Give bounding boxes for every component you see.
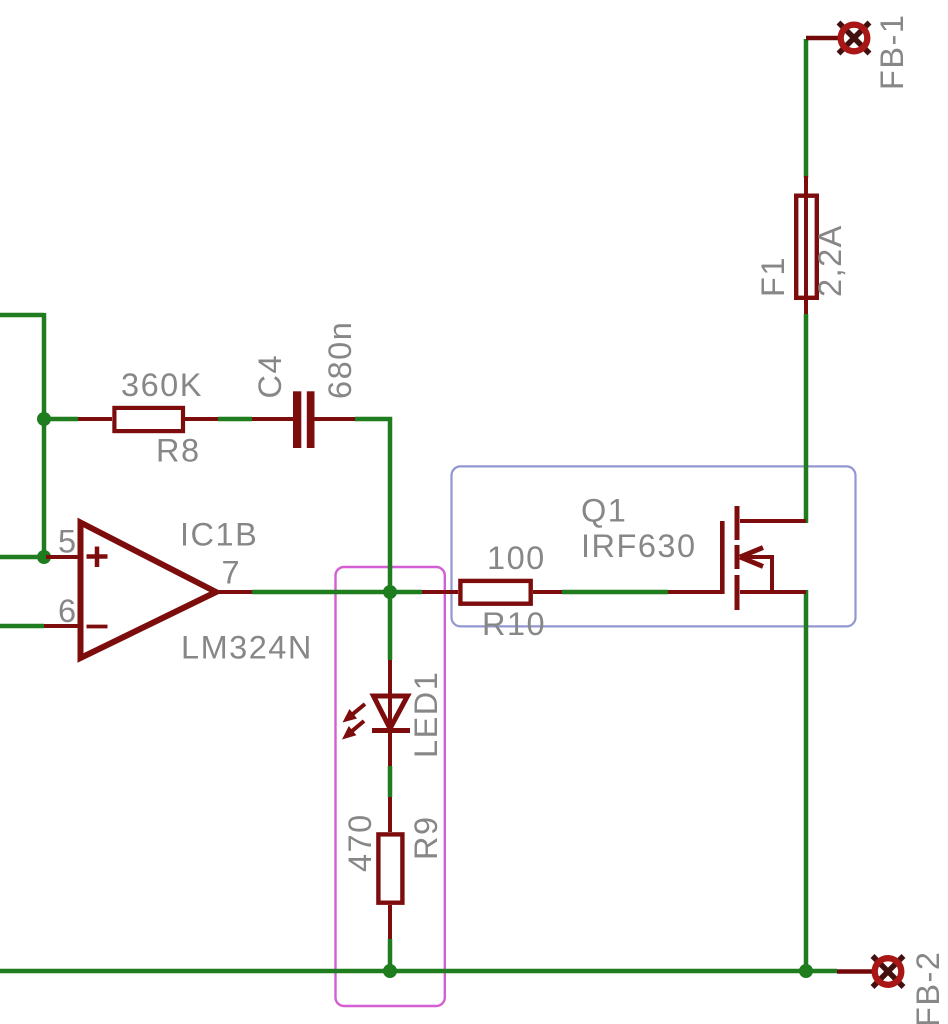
svg-text:Q1: Q1 [581, 493, 627, 529]
svg-text:470: 470 [342, 813, 378, 872]
svg-text:FB-1: FB-1 [874, 14, 910, 90]
svg-text:R8: R8 [156, 433, 201, 469]
svg-text:680n: 680n [322, 321, 358, 399]
svg-text:R10: R10 [482, 606, 546, 642]
svg-text:F1: F1 [755, 256, 791, 297]
svg-text:5: 5 [58, 524, 78, 560]
svg-text:LED1: LED1 [408, 671, 444, 758]
svg-text:7: 7 [222, 555, 242, 591]
svg-text:LM324N: LM324N [181, 630, 313, 666]
svg-text:6: 6 [58, 593, 78, 629]
svg-text:100: 100 [487, 540, 546, 576]
svg-text:FB-2: FB-2 [910, 951, 946, 1024]
svg-text:IC1B: IC1B [180, 517, 258, 553]
svg-text:IRF630: IRF630 [581, 528, 697, 564]
svg-text:R9: R9 [408, 815, 444, 860]
svg-text:360K: 360K [121, 367, 203, 403]
svg-text:C4: C4 [252, 354, 288, 399]
svg-text:2,2A: 2,2A [812, 224, 848, 297]
